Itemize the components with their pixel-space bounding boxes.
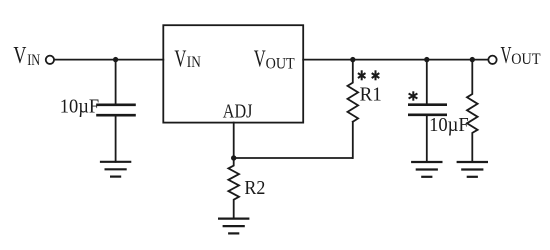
svg-text:V: V <box>501 43 512 69</box>
svg-text:OUT: OUT <box>511 51 541 68</box>
resistor R2 <box>228 158 239 219</box>
svg-text:V: V <box>174 46 186 72</box>
wire ADJ stem <box>233 123 235 158</box>
capacitor C2 plates <box>409 105 445 115</box>
node C2 junction <box>424 57 429 62</box>
terminal input <box>46 56 54 64</box>
wire C2 bottom stem <box>426 116 428 162</box>
svg-text:V: V <box>254 46 266 72</box>
wire R1 bottom tail <box>352 122 354 158</box>
wire C1 top stem <box>115 60 117 104</box>
ground R3 <box>458 162 487 177</box>
resistor R1 <box>348 60 359 122</box>
regulator U1 box <box>163 25 303 122</box>
label pin VOUT <box>254 46 295 72</box>
label VOUT output <box>501 43 541 69</box>
ground C2 <box>412 162 441 177</box>
ground R2 <box>219 219 248 234</box>
svg-text:OUT: OUT <box>266 56 296 73</box>
node R3 junction <box>470 57 475 62</box>
node ADJ junction <box>231 155 236 160</box>
wire output <box>303 59 487 61</box>
terminal output <box>488 56 496 64</box>
wire C2 top stem <box>426 60 428 104</box>
svg-text:R1: R1 <box>360 83 382 105</box>
capacitor C1 plates <box>98 105 135 115</box>
node R1 junction <box>350 57 355 62</box>
svg-text:V: V <box>13 43 26 69</box>
svg-text:R2: R2 <box>244 177 265 199</box>
node input junction <box>113 57 118 62</box>
svg-text:IN: IN <box>187 54 201 71</box>
resistor R3 <box>467 60 478 162</box>
svg-text:IN: IN <box>27 52 40 69</box>
wire feedback <box>234 157 353 159</box>
label pin VIN <box>174 46 200 72</box>
label VIN input <box>13 43 40 69</box>
label asterisks R1 <box>358 70 379 80</box>
label asterisk C2 <box>409 91 418 100</box>
wire input <box>55 59 164 61</box>
wire C1 bottom stem <box>115 116 117 161</box>
svg-text:10µF: 10µF <box>429 115 469 136</box>
svg-text:10µF: 10µF <box>60 96 99 117</box>
svg-text:ADJ: ADJ <box>223 101 253 122</box>
ground C1 <box>101 162 130 177</box>
